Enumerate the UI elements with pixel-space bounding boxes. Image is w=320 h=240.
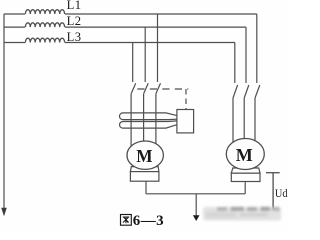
- wire QS2 pole2 lower lead: [243, 98, 245, 142]
- wire drop from L2 right corner: [245, 27, 247, 83]
- svg-text:6—3: 6—3: [133, 213, 164, 229]
- wire L2 horizontal: [4, 26, 246, 28]
- voltage regulator lens lower: [120, 121, 177, 128]
- switch QS1 blade pole 3: [156, 83, 161, 94]
- svg-text:L2: L2: [67, 14, 82, 28]
- switch QS1 blade pole 1: [131, 83, 136, 94]
- svg-text:Ud: Ud: [275, 186, 288, 200]
- switch QS1 blade pole 2: [144, 83, 149, 94]
- caption glyph 图: [121, 215, 132, 226]
- svg-text:M: M: [136, 146, 153, 166]
- wire M1 bottom lead: [145, 181, 147, 194]
- voltage regulator lens upper: [119, 113, 176, 120]
- left bus arrowhead: [1, 208, 7, 216]
- inductor coil on L3: [25, 38, 64, 42]
- motor M1 pedestal trapezoid: [130, 167, 159, 172]
- Ud marker top bar: [266, 172, 280, 174]
- inductor coil on L1: [25, 10, 64, 14]
- watermark blurred block: [203, 207, 281, 221]
- output arrowhead: [193, 215, 200, 221]
- wire pole 1 lower lead into regulator: [130, 94, 132, 148]
- actuator box: [177, 110, 194, 133]
- left bus vertical wire: [3, 14, 5, 208]
- svg-text:L1: L1: [67, 0, 82, 12]
- wire output drop with arrow: [195, 194, 197, 216]
- dashed interlock link vertical: [185, 89, 187, 110]
- wire drop from L3 right corner: [234, 43, 236, 84]
- wire pole 3 lower lead into regulator: [155, 94, 157, 148]
- wire drop from L3 to left switch pole 1: [132, 43, 134, 83]
- wire L3 horizontal: [4, 42, 235, 44]
- motor M2 body circle: [226, 139, 264, 170]
- wire bottom horizontal bus: [146, 193, 245, 195]
- motor M2 base rect: [231, 173, 260, 181]
- wire drop from L1 to left switch pole 3: [157, 14, 159, 82]
- motor M2 pedestal trapezoid: [231, 168, 260, 173]
- motor M1 body circle: [127, 141, 163, 169]
- wire pole 2 lower lead into regulator: [143, 94, 145, 144]
- dashed interlock link horizontal: [137, 88, 188, 90]
- svg-text:L3: L3: [67, 30, 82, 44]
- switch QS2 blade pole 3: [255, 85, 260, 98]
- wire drop from L2 to left switch pole 2: [144, 27, 146, 82]
- switch QS2 blade pole 2: [244, 85, 249, 98]
- switch QS2 blade pole 1: [233, 85, 238, 98]
- inductor coil on L2: [25, 23, 64, 27]
- Ud marker vertical line: [272, 173, 274, 211]
- wire drop from L1 right corner: [256, 14, 258, 83]
- wire QS2 pole3 lower lead: [254, 98, 256, 148]
- motor M1 base rect: [130, 172, 159, 182]
- wire QS2 pole1 lower lead: [232, 98, 234, 148]
- wire M2 bottom lead: [244, 182, 246, 194]
- wire L1 horizontal: [4, 13, 257, 15]
- svg-text:M: M: [236, 145, 253, 165]
